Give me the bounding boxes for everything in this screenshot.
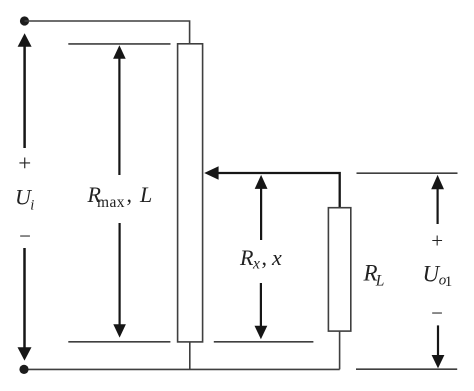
wire: potentiometer bottom lead	[189, 342, 191, 370]
svg-text:RL: RL	[363, 260, 385, 289]
potentiometer R_max body	[178, 44, 203, 342]
arrow: R_max span, lower (points down to bottom reference line)	[113, 223, 126, 338]
wire: bottom bus	[24, 368, 340, 370]
arrow: R_max span, upper (points up to top reference line)	[113, 45, 126, 175]
reference line: top of R_max span	[68, 43, 170, 45]
reference line: bottom of U_o1 span	[356, 368, 457, 370]
node: top input terminal (dot)	[20, 16, 29, 25]
svg-text:−: −	[431, 301, 443, 325]
svg-text:Rmax,L: Rmax,L	[87, 182, 153, 211]
arrow: U_o1 polarity, lower (points down to bottom-right reference line)	[432, 325, 445, 368]
reference line: top of U_o1 span	[357, 172, 458, 174]
arrow: U_i polarity, upper (points up to top terminal)	[18, 33, 32, 148]
svg-text:Uo1: Uo1	[423, 262, 453, 290]
svg-text:Ui: Ui	[15, 184, 34, 213]
wire: wiper arm with arrow into potentiometer, to R_L top	[204, 166, 340, 208]
arrow: U_o1 polarity, upper (points up to top-right reference line)	[431, 175, 444, 224]
reference line: bottom of R_max span	[68, 341, 170, 343]
reference line: bottom of R_x span	[214, 341, 314, 343]
wire: top lead from input terminal to potentiometer top	[25, 21, 190, 44]
svg-text:+: +	[431, 229, 443, 253]
arrow: R_x span, lower (points down to bottom reference line)	[255, 283, 268, 339]
svg-text:Rx,x: Rx,x	[239, 245, 282, 272]
arrow: R_x span, upper (points up to wiper line)	[255, 175, 268, 240]
arrow: U_i polarity, lower (points down to bottom terminal)	[18, 248, 32, 361]
wire: R_L bottom lead to bottom bus	[339, 331, 341, 369]
svg-text:−: −	[19, 224, 31, 248]
svg-text:+: +	[18, 151, 31, 176]
node: bottom input terminal (dot)	[19, 365, 28, 374]
resistor R_L body	[328, 208, 350, 331]
